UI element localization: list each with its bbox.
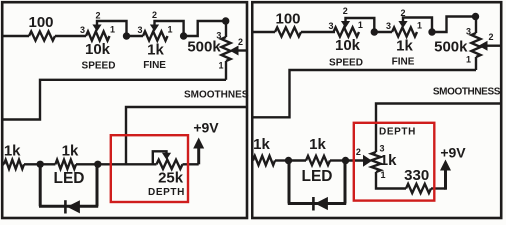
wire: node A to R3 xyxy=(40,163,55,165)
svg-text:1: 1 xyxy=(167,25,172,35)
+9V supply arrow (right) xyxy=(444,168,447,190)
wiper of 1k right: bracket xyxy=(403,18,432,33)
LED D2: triangle (pointing left) xyxy=(315,197,328,210)
svg-text:2: 2 xyxy=(238,37,243,47)
svg-text:100: 100 xyxy=(275,11,300,28)
wiper of 10k: bracket pin2 to pin1 xyxy=(97,21,127,36)
wire: R2 to node A xyxy=(24,163,40,165)
node: 500k pin3 junction (right) xyxy=(472,13,479,20)
svg-text:1k: 1k xyxy=(309,136,326,153)
potentiometer VR3 500k SMOOTHNESS (vertical) xyxy=(225,21,227,37)
potentiometer VR8 1k DEPTH (vertical) xyxy=(371,152,380,172)
svg-text:10k: 10k xyxy=(85,41,111,58)
wiper of 25k: bracket from left terminal, arrow down xyxy=(153,151,167,164)
resistor R5 1k xyxy=(253,156,275,165)
LED D1: cathode bar xyxy=(64,200,67,213)
LED D2: left drop xyxy=(288,161,291,204)
svg-text:DEPTH: DEPTH xyxy=(379,127,416,138)
LED D2: cathode bar xyxy=(312,197,315,211)
wire: 1k to 500k top (jog up) xyxy=(184,21,226,36)
wire: R4 to pot 10k xyxy=(301,31,335,33)
svg-text:1k: 1k xyxy=(147,42,164,59)
node: 1k pin1 junction xyxy=(180,32,187,39)
potentiometer VR1 10k SPEED xyxy=(86,31,110,40)
wire: riser to smoothness line xyxy=(126,107,247,164)
potentiometer VR4 25k DEPTH xyxy=(157,160,183,169)
svg-text:1: 1 xyxy=(110,25,115,35)
LED D2: right drop xyxy=(344,161,347,204)
svg-text:LED: LED xyxy=(302,168,333,185)
svg-text:LED: LED xyxy=(54,170,85,187)
resistor R3 1k (LED ballast) xyxy=(55,160,76,169)
node: 10k pin1 junction xyxy=(123,32,130,39)
potentiometer VR5 10k SPEED xyxy=(334,27,360,36)
LED D1: left drop xyxy=(39,164,42,206)
svg-text:2: 2 xyxy=(343,6,348,16)
node D junction xyxy=(342,157,349,164)
svg-text:500k: 500k xyxy=(434,38,468,55)
wire: bottom rail from border to R2 xyxy=(2,163,4,165)
potentiometer VR2 1k FINE xyxy=(143,31,168,40)
wire: node D to depth pot wiper arrow xyxy=(346,159,365,161)
potentiometer VR6 1k FINE xyxy=(392,27,417,36)
svg-text:SMOOTHNESS: SMOOTHNESS xyxy=(433,87,501,98)
LED D1: triangle (pointing left) xyxy=(67,200,80,213)
svg-text:2: 2 xyxy=(356,147,361,157)
resistor R7 330 xyxy=(406,184,431,193)
node C junction xyxy=(285,157,292,164)
wire: R7 to +9V xyxy=(431,187,446,189)
wire: depth pin1 down to R7 xyxy=(376,172,406,189)
svg-text:500k: 500k xyxy=(187,39,221,56)
svg-text:3: 3 xyxy=(386,21,391,31)
highlight box (red, right) xyxy=(354,123,435,201)
node A junction xyxy=(37,161,44,168)
svg-text:2: 2 xyxy=(400,8,405,18)
svg-text:330: 330 xyxy=(404,167,429,184)
wire: 500k pin1 down-left to border (right) xyxy=(252,70,476,117)
wire: node C to R6 xyxy=(289,159,307,161)
svg-text:1k: 1k xyxy=(253,136,270,153)
svg-text:10k: 10k xyxy=(335,37,361,54)
svg-text:2: 2 xyxy=(95,10,100,20)
LED D2: bottom wire xyxy=(288,202,346,205)
wire: 25k to +9V xyxy=(183,163,199,165)
svg-text:3: 3 xyxy=(466,27,471,37)
svg-text:FINE: FINE xyxy=(143,60,166,71)
potentiometer VR7 500k SMOOTHNESS (vertical, right) xyxy=(475,17,477,34)
wire: R3 to node B xyxy=(76,163,98,165)
svg-text:1k: 1k xyxy=(380,152,397,169)
svg-text:25k: 25k xyxy=(158,170,184,187)
LED D1: right drop xyxy=(96,164,99,206)
wiper of 500k from right border (right) xyxy=(486,45,500,47)
wire: 10k to pot 1k xyxy=(127,35,144,37)
wiper of 1k: bracket pin2 to pin1 xyxy=(155,21,184,36)
highlight box (red) xyxy=(111,135,188,202)
svg-text:100: 100 xyxy=(28,14,53,31)
svg-text:1k: 1k xyxy=(396,38,413,55)
wire: top rail from left border to R4 xyxy=(252,31,275,33)
svg-text:FINE: FINE xyxy=(392,56,415,67)
svg-text:3: 3 xyxy=(328,21,333,31)
svg-text:1k: 1k xyxy=(4,142,21,159)
wire: R6 to node D xyxy=(330,159,346,161)
node: 500k pin3 junction xyxy=(222,17,229,24)
+9V supply arrow xyxy=(197,146,200,164)
wire: depth pin3 up and right to border xyxy=(376,104,500,153)
svg-text:1: 1 xyxy=(218,61,223,71)
node B junction xyxy=(94,161,101,168)
node: 1k pin1 junction (right) xyxy=(428,28,435,35)
resistor R1 100 xyxy=(29,31,55,40)
svg-text:SMOOTHNESS: SMOOTHNESS xyxy=(184,90,255,101)
wiper of 10k right: bracket xyxy=(346,18,375,32)
node: 10k pin1 junction (right) xyxy=(371,28,378,35)
wire: bottom rail from border to R5 xyxy=(252,159,253,161)
resistor R6 1k (LED ballast right) xyxy=(306,156,330,165)
wire: top rail from left border to R1 xyxy=(2,35,29,37)
svg-text:1: 1 xyxy=(358,20,363,30)
svg-text:3: 3 xyxy=(80,25,85,35)
svg-text:1k: 1k xyxy=(62,142,79,159)
svg-text:SPEED: SPEED xyxy=(82,60,116,71)
svg-text:1: 1 xyxy=(417,21,422,31)
svg-text:2: 2 xyxy=(488,32,493,42)
wire: 1k to 500k top jog (right) xyxy=(432,17,476,33)
wire: R5 to node C xyxy=(275,159,289,161)
resistor R2 1k xyxy=(4,160,24,169)
svg-text:1: 1 xyxy=(380,170,385,180)
svg-text:+9V: +9V xyxy=(440,145,466,161)
left panel frame xyxy=(2,2,247,218)
wire: 10k to 1k (right) xyxy=(374,31,392,33)
wire: node B to pot 25k xyxy=(98,163,157,165)
svg-text:1: 1 xyxy=(466,55,471,65)
wiper of 500k from right border xyxy=(237,49,247,51)
svg-text:SPEED: SPEED xyxy=(329,57,363,68)
svg-text:DEPTH: DEPTH xyxy=(148,187,185,198)
LED D1: bottom wire xyxy=(39,205,98,208)
svg-text:2: 2 xyxy=(152,10,157,20)
wire: R1 to pot 10k pin3 xyxy=(55,35,86,37)
svg-text:+9V: +9V xyxy=(193,120,219,136)
wire: 500k pin1 down-left to border xyxy=(2,80,226,120)
resistor R4 100 xyxy=(275,27,301,36)
right panel frame xyxy=(252,2,501,218)
svg-text:3: 3 xyxy=(137,25,142,35)
